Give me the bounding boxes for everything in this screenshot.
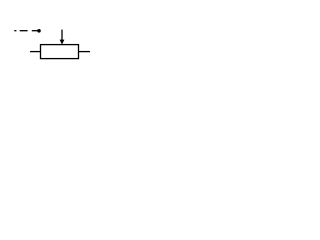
dash-dot linkage line segment 1 [14, 30, 16, 32]
wiper arrow shaft [61, 30, 63, 41]
wire right lead [79, 51, 91, 53]
wiper arrow head [60, 40, 65, 45]
dash-dot linkage line segment 2 [20, 30, 28, 32]
resistor body R [41, 45, 79, 59]
junction dot at end of linkage line [37, 29, 41, 33]
wire left lead [30, 51, 41, 53]
dash-dot linkage line segment 3 [32, 30, 38, 32]
